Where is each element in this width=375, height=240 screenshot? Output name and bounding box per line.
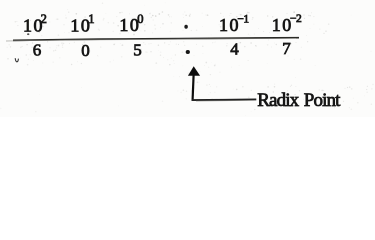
radix point dot, upper row: [184, 25, 188, 29]
speck above rule: [27, 33, 29, 35]
svg-text:Radix Point: Radix Point: [257, 90, 341, 111]
svg-text:4: 4: [230, 40, 239, 59]
rule fringe: [6, 38, 296, 41]
svg-text:1: 1: [88, 12, 94, 26]
svg-text:−1: −1: [237, 13, 249, 25]
leader fringe: [196, 99, 252, 102]
radix point dot, lower row: [186, 50, 190, 54]
svg-text:5: 5: [133, 41, 142, 60]
scan speckle noise: [0, 2, 374, 115]
arrow horizontal leader line: [192, 98, 257, 101]
svg-text:−2: −2: [290, 13, 302, 25]
svg-text:7: 7: [282, 39, 291, 58]
arrowhead of radix pointer: [188, 66, 200, 75]
arrow stem: [193, 75, 194, 100]
svg-text:6: 6: [33, 41, 42, 60]
svg-text:0: 0: [81, 41, 90, 60]
svg-text:0: 0: [137, 12, 143, 26]
svg-text:2: 2: [41, 12, 47, 26]
stray scan mark: [15, 58, 18, 62]
horizontal rule under powers row: [13, 38, 299, 41]
